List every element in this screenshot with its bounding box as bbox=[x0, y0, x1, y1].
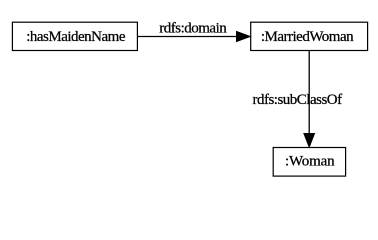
edge label rdfs:domain bbox=[159, 21, 227, 37]
node :MarriedWoman bbox=[251, 22, 368, 50]
svg-text::Woman: :Woman bbox=[285, 154, 335, 170]
svg-text:rdfs:subClassOf: rdfs:subClassOf bbox=[252, 92, 342, 108]
node :Woman bbox=[273, 148, 345, 177]
edge label rdfs:subClassOf bbox=[252, 92, 342, 108]
arrowhead rdfs:domain bbox=[237, 32, 251, 42]
svg-text::hasMaidenName: :hasMaidenName bbox=[26, 29, 126, 45]
svg-text::MarriedWoman: :MarriedWoman bbox=[261, 29, 354, 45]
wire edge :hasMaidenName to :MarriedWoman bbox=[138, 36, 238, 38]
wire edge :MarriedWoman to :Woman bbox=[308, 51, 310, 135]
arrowhead rdfs:subClassOf bbox=[304, 134, 315, 148]
svg-text:rdfs:domain: rdfs:domain bbox=[159, 21, 227, 37]
node :hasMaidenName bbox=[12, 22, 137, 50]
